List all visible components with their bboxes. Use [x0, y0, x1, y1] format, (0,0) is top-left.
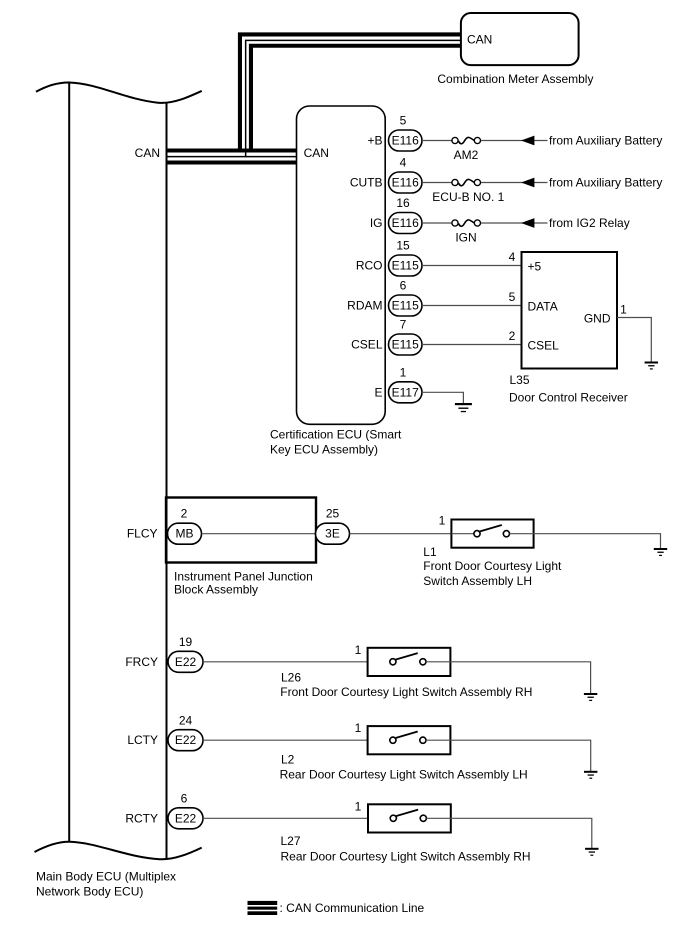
wire: 3E to L1 switch [350, 533, 474, 535]
svg-text:E115: E115 [392, 259, 419, 273]
svg-text:FLCY: FLCY [127, 527, 158, 541]
ground (certification ECU E) [455, 403, 472, 412]
svg-text:6: 6 [181, 791, 188, 805]
box: Instrument Panel Junction Block Assembly [166, 498, 316, 563]
svg-text:E116: E116 [392, 134, 419, 148]
wire: CAN horizontal run bus-to-ECU thick top [167, 148, 297, 152]
svg-text:2: 2 [509, 329, 516, 343]
wire: main bus left vertical line [68, 83, 70, 842]
arrow: from Auxiliary Battery (row +B) [521, 136, 534, 146]
label: Main Body ECU caption [36, 869, 176, 898]
connector E115 pin 6 [389, 295, 423, 316]
svg-text:Front Door Courtesy Light Swit: Front Door Courtesy Light Switch Assembl… [280, 685, 532, 699]
svg-text:CAN: CAN [135, 146, 160, 160]
svg-text:Main Body ECU (Multiplex: Main Body ECU (Multiplex [36, 869, 176, 883]
wire: L26 switch to ground [426, 662, 591, 693]
wire: E22 pin24 to L2 switch [203, 739, 390, 741]
svg-text:CSEL: CSEL [351, 338, 383, 352]
svg-text:1: 1 [400, 366, 407, 380]
svg-text:E22: E22 [175, 655, 197, 669]
svg-text:FRCY: FRCY [125, 655, 158, 669]
svg-text:Rear Door Courtesy Light Switc: Rear Door Courtesy Light Switch Assembly… [281, 849, 531, 863]
svg-text:24: 24 [179, 713, 193, 727]
legend: CAN communication line symbol [248, 901, 278, 915]
box: Door Control Receiver L35 [522, 252, 618, 369]
svg-text:Block Assembly: Block Assembly [174, 583, 258, 597]
connector E117 pin 1 [389, 382, 423, 403]
svg-text:CAN: CAN [467, 33, 492, 47]
svg-text:from Auxiliary Battery: from Auxiliary Battery [549, 176, 662, 190]
label: L1 caption [423, 545, 562, 588]
svg-text:RCTY: RCTY [125, 811, 158, 825]
wire: CUTB to fuse ECU-B NO.1 [422, 182, 452, 184]
svg-text:6: 6 [400, 279, 407, 293]
svg-text:RDAM: RDAM [347, 299, 382, 313]
wire: main bus break wave top [36, 82, 202, 102]
svg-text:5: 5 [400, 114, 407, 128]
svg-text:Network Body ECU): Network Body ECU) [36, 884, 143, 898]
svg-text:E22: E22 [175, 733, 197, 747]
svg-text:5: 5 [509, 290, 516, 304]
connector E115 pin 15 [389, 255, 423, 276]
connector E115 pin 7 [389, 334, 423, 355]
wire: main bus break wave bottom [35, 842, 202, 859]
svg-text:E116: E116 [392, 216, 419, 230]
svg-text:Switch Assembly LH: Switch Assembly LH [423, 574, 532, 588]
svg-text:+B: +B [367, 134, 382, 148]
svg-text:Instrument Panel Junction: Instrument Panel Junction [174, 569, 313, 583]
label: L2 caption [280, 753, 528, 782]
switch L2 Rear Door Courtesy Light Switch Assembly LH [368, 726, 451, 754]
wire: L2 switch to ground [426, 740, 591, 771]
svg-text:AM2: AM2 [454, 148, 479, 162]
wire: CAN trunk thin middle line (vertical + top run) [246, 40, 461, 156]
arrow: from Auxiliary Battery (row CUTB) [521, 178, 534, 188]
ground (L2 switch) [584, 771, 597, 779]
svg-text:E22: E22 [175, 811, 197, 825]
connector E116 pin 4 [389, 172, 423, 193]
svg-text:L2: L2 [281, 753, 295, 767]
switch L1 Front Door Courtesy Light Switch Assembly LH [451, 520, 533, 548]
svg-text:DATA: DATA [528, 299, 558, 313]
connector 3E pin 25 [316, 523, 350, 544]
wire: CAN horizontal run bus-to-ECU thin middle [167, 156, 297, 158]
fuse IGN [452, 220, 481, 245]
svg-text:Key ECU Assembly): Key ECU Assembly) [270, 443, 378, 457]
box: Combination Meter Assembly [461, 13, 579, 65]
svg-text:E117: E117 [392, 385, 419, 399]
wire: RCO to door control receiver [422, 265, 522, 267]
svg-text:4: 4 [509, 250, 516, 264]
wire: +B to fuse AM2 [422, 140, 452, 142]
svg-text:IGN: IGN [455, 230, 476, 244]
connector E22 pin 19 [168, 651, 203, 672]
svg-text:E115: E115 [392, 299, 419, 313]
svg-text:19: 19 [179, 635, 193, 649]
svg-text:Rear Door Courtesy Light Switc: Rear Door Courtesy Light Switch Assembly… [280, 768, 528, 782]
svg-text:LCTY: LCTY [127, 733, 158, 747]
wire: L27 switch to ground [426, 818, 591, 848]
svg-text:1: 1 [439, 514, 446, 528]
svg-text:: CAN Communication Line: : CAN Communication Line [280, 901, 425, 915]
svg-text:3E: 3E [325, 527, 340, 541]
svg-text:IG: IG [370, 216, 383, 230]
svg-text:1: 1 [355, 643, 362, 657]
wire: fuse IGN to from-IG2-Relay [481, 222, 548, 224]
svg-text:+5: +5 [528, 259, 542, 273]
svg-text:MB: MB [176, 527, 194, 541]
svg-text:CUTB: CUTB [350, 176, 383, 190]
svg-text:ECU-B NO. 1: ECU-B NO. 1 [432, 190, 504, 204]
svg-text:4: 4 [400, 156, 407, 170]
svg-text:25: 25 [326, 507, 340, 521]
wire: RDAM to door control receiver [422, 305, 522, 307]
svg-text:L26: L26 [281, 670, 301, 684]
wire: fuse AM2 to from-Auxiliary-Battery [481, 140, 548, 142]
label: Certification ECU caption [270, 427, 402, 456]
svg-text:L35: L35 [510, 373, 530, 387]
svg-text:Combination Meter Assembly: Combination Meter Assembly [437, 72, 593, 86]
svg-text:Front Door Courtesy Light: Front Door Courtesy Light [423, 559, 562, 573]
switch L26 Front Door Courtesy Light Switch Assembly RH [368, 648, 451, 676]
svg-text:16: 16 [396, 196, 410, 210]
connector E116 pin 16 [389, 213, 423, 234]
wire: E22 pin19 to L26 switch [203, 661, 390, 663]
svg-text:CSEL: CSEL [528, 338, 560, 352]
svg-text:1: 1 [620, 302, 627, 316]
label: L26 caption [280, 670, 532, 699]
switch L27 Rear Door Courtesy Light Switch Assembly RH [368, 804, 451, 832]
svg-text:E115: E115 [392, 338, 419, 352]
svg-text:L1: L1 [423, 545, 437, 559]
svg-text:GND: GND [584, 311, 611, 325]
arrow: from IG2 Relay [521, 218, 534, 228]
wire: GND to ground [617, 318, 651, 362]
ground (L27 switch) [585, 848, 598, 856]
connector MB pin 2 [168, 523, 202, 544]
fuse AM2 [452, 137, 481, 162]
svg-text:Door Control Receiver: Door Control Receiver [509, 391, 628, 405]
wire: E to ground [422, 392, 463, 403]
svg-text:from IG2 Relay: from IG2 Relay [549, 216, 630, 230]
wire: fuse ECU-B to from-Auxiliary-Battery [481, 182, 548, 184]
label: Instrument Panel Junction Block caption [174, 569, 313, 596]
wire: main bus right vertical line (CAN bus) [166, 103, 168, 859]
svg-text:E: E [374, 385, 382, 399]
label: L27 caption [281, 834, 531, 864]
svg-text:Certification ECU (Smart: Certification ECU (Smart [270, 427, 402, 441]
ground (L1 switch) [654, 548, 667, 556]
fuse ECU-B NO. 1 [432, 179, 504, 204]
connector E22 pin 6 [168, 808, 203, 829]
box: Certification ECU (Smart Key ECU Assembly) U-ECU [297, 106, 386, 424]
wire: E22 pin6 to L27 switch [203, 817, 390, 819]
ground (L26 switch) [584, 693, 597, 701]
svg-text:7: 7 [400, 318, 407, 332]
ground (door control receiver) [645, 362, 658, 370]
wire: MB to 3E inside junction block [202, 533, 316, 535]
svg-text:1: 1 [355, 799, 362, 813]
wire: CAN horizontal run bus-to-ECU thick bottom [167, 160, 297, 164]
svg-text:RCO: RCO [356, 259, 383, 273]
svg-text:15: 15 [396, 239, 410, 253]
wire: CAN trunk inner thick line (vertical + top run) [251, 46, 461, 151]
svg-text:L27: L27 [281, 834, 301, 848]
wire: L1 switch to ground [510, 534, 661, 549]
svg-text:1: 1 [355, 721, 362, 735]
connector E116 pin 5 [389, 130, 423, 151]
wire: CSEL to door control receiver [422, 344, 522, 346]
svg-text:CAN: CAN [304, 146, 329, 160]
svg-text:E116: E116 [392, 176, 419, 190]
wire: IG to fuse IGN [422, 222, 452, 224]
svg-text:from Auxiliary Battery: from Auxiliary Battery [549, 134, 662, 148]
connector E22 pin 24 [168, 730, 203, 751]
wire: CAN trunk outer thick line (vertical + top run) [240, 34, 461, 150]
svg-text:2: 2 [181, 507, 188, 521]
